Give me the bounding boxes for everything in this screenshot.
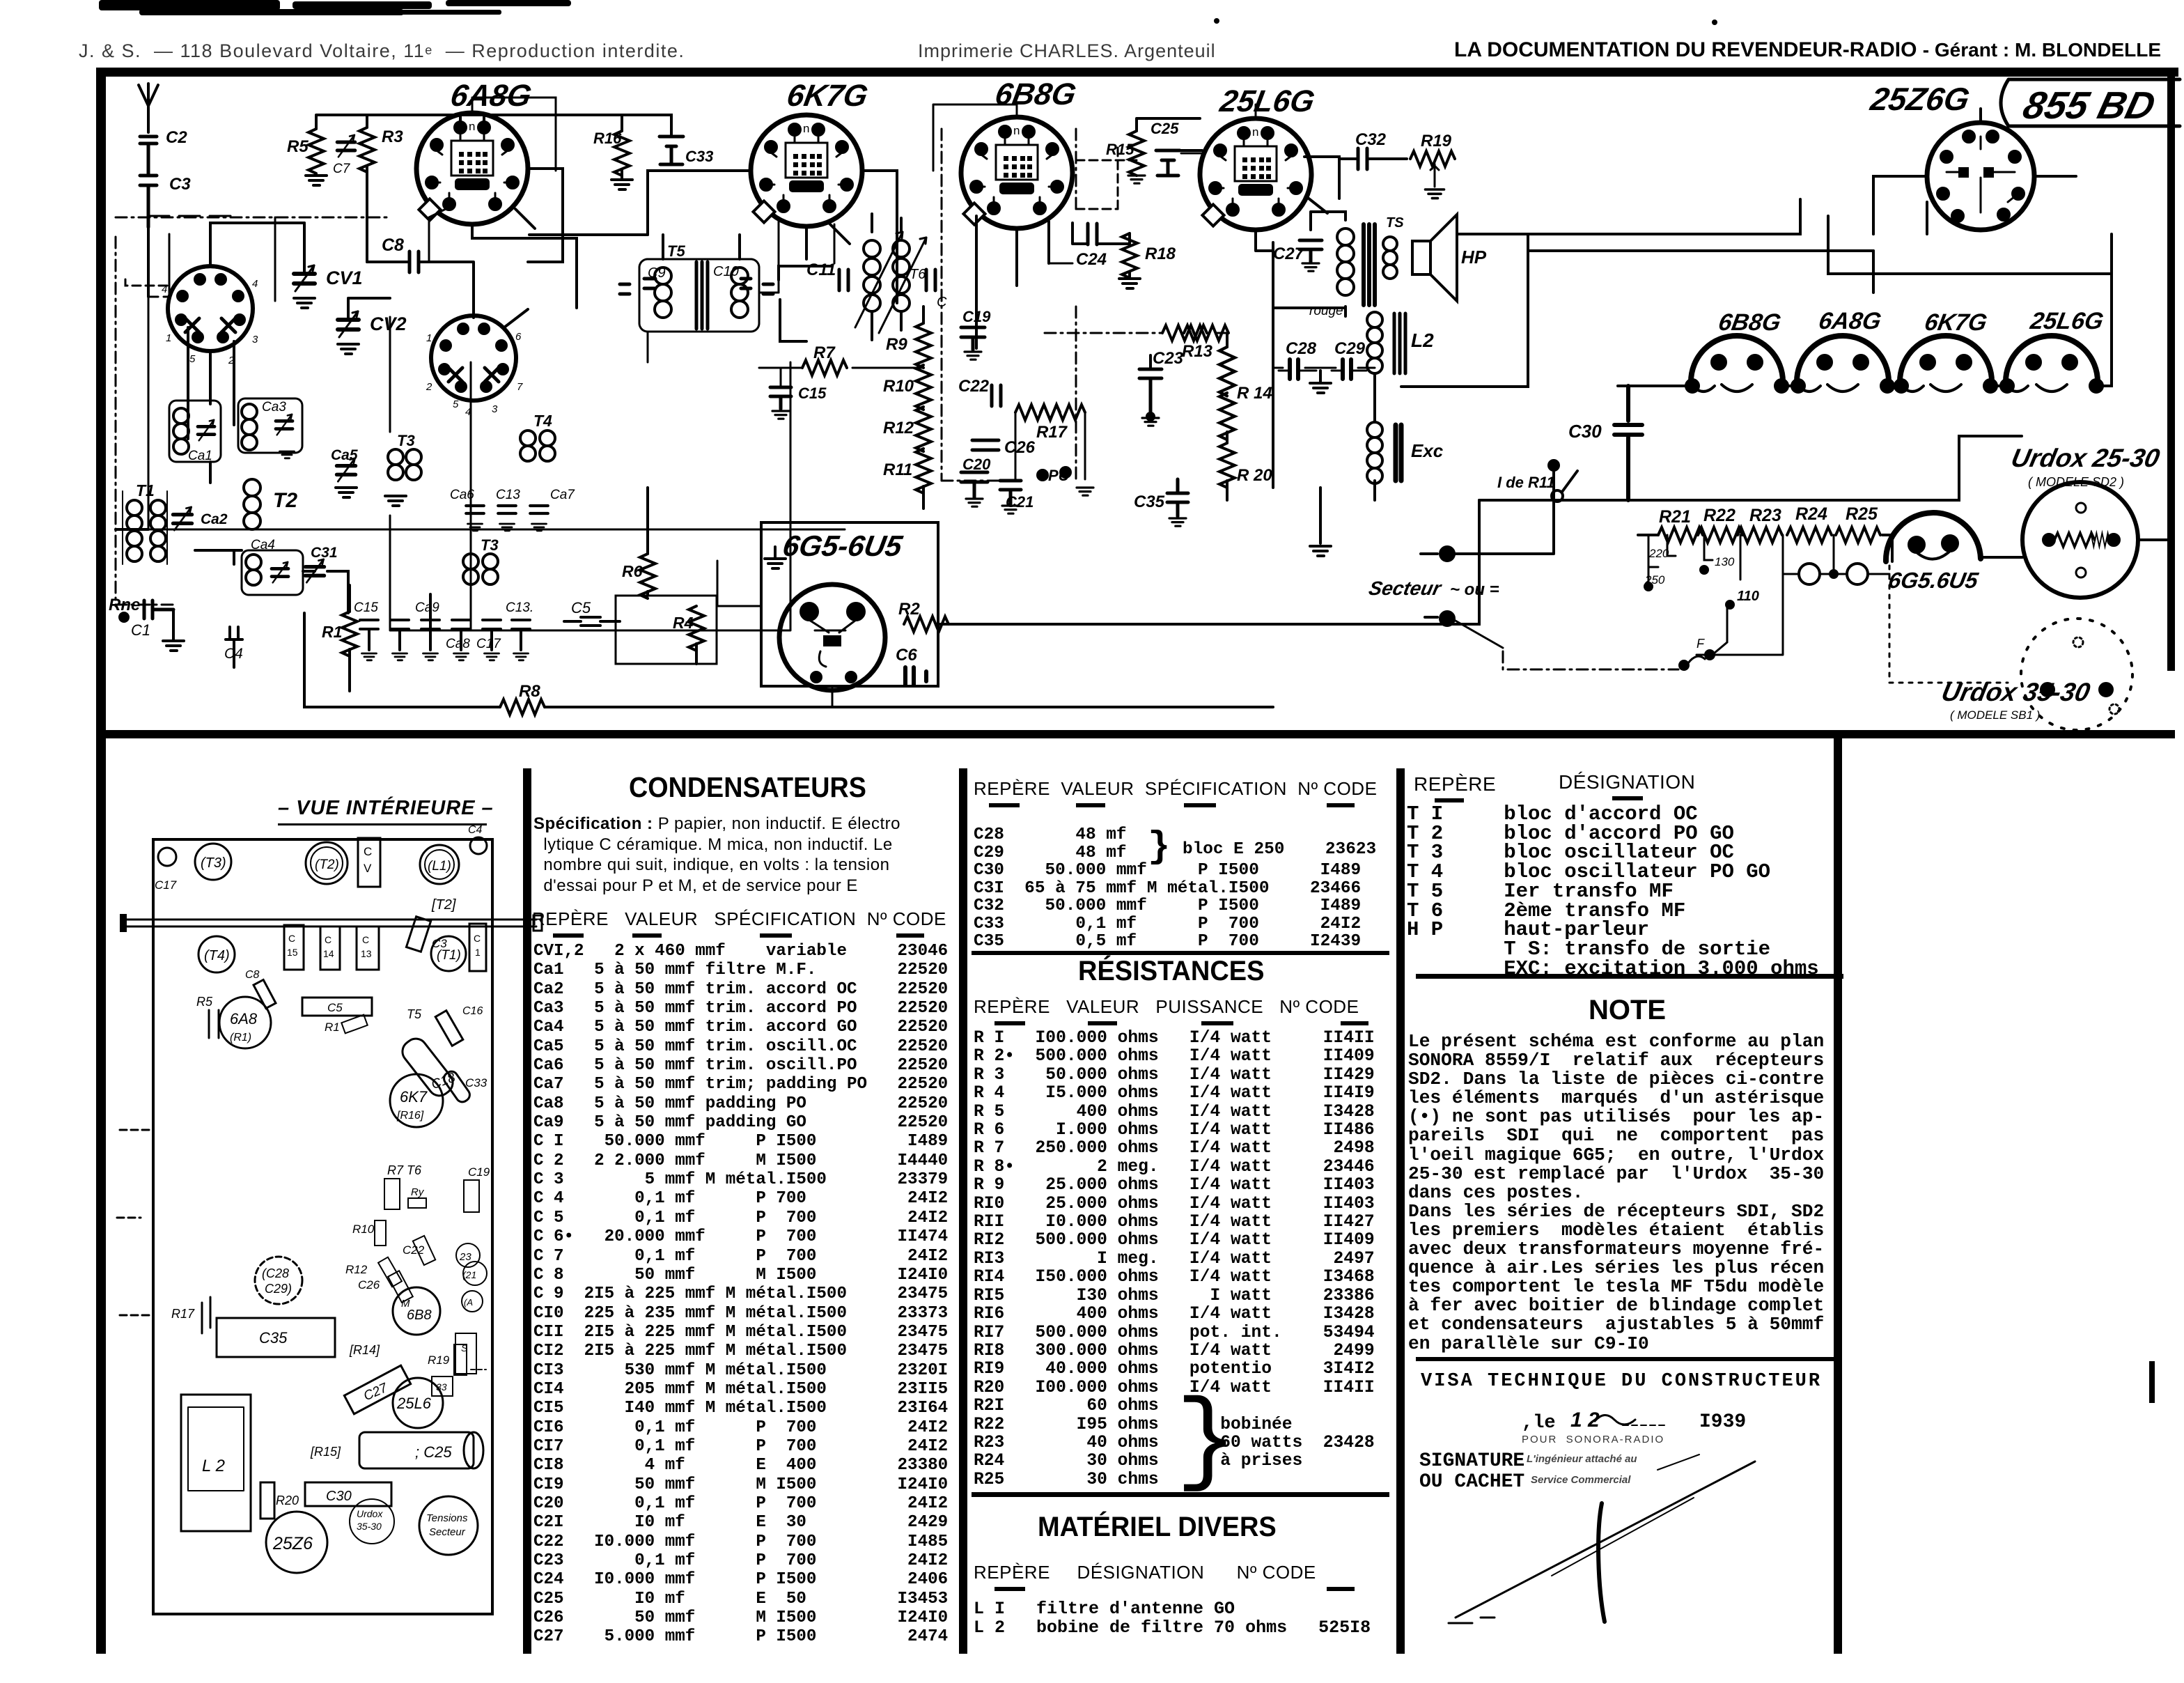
chassis C18 [398, 1034, 458, 1101]
svg-text:C6: C6 [896, 646, 917, 665]
column 3 top table C28-C35 [974, 778, 1377, 800]
capacitor C20 [961, 456, 991, 506]
svg-text:R5: R5 [287, 137, 309, 156]
svg-text:[R14]: [R14] [349, 1343, 380, 1357]
transformer T3 lower [463, 536, 499, 584]
svg-text:130: 130 [1715, 555, 1735, 568]
wire V1 bottom nets [188, 327, 234, 439]
wire 25L6G top link [1181, 104, 1256, 153]
svg-text:13: 13 [361, 948, 372, 959]
chassis C3 [406, 917, 447, 952]
svg-text:T5: T5 [407, 1007, 422, 1021]
svg-text:CV2: CV2 [370, 313, 407, 334]
VISA block [1421, 1371, 1822, 1392]
coil-trimmer block Ca1 [169, 401, 221, 463]
wire R7 net [759, 368, 923, 386]
svg-text:6G5-6U5: 6G5-6U5 [780, 529, 905, 562]
svg-text:23: 23 [459, 1251, 471, 1263]
svg-text:C5: C5 [327, 1001, 343, 1014]
wire T5 secondary to 6K7G [648, 293, 779, 362]
chassis CV block [358, 838, 380, 887]
svg-text:C8: C8 [245, 969, 260, 981]
svg-text:Secteur: Secteur [1367, 577, 1444, 599]
capacitor C27 [1273, 240, 1322, 271]
svg-text:R9: R9 [886, 335, 907, 354]
svg-text:R2: R2 [898, 600, 920, 619]
wire dash top right of 6B8G [1076, 208, 1118, 210]
coil-trimmer block Ca4 + C31 [242, 538, 303, 595]
wire 25Z6G left loop [1528, 234, 1873, 251]
svg-text:R10: R10 [883, 377, 914, 396]
svg-text:25L6G: 25L6G [2028, 308, 2106, 334]
trimmer Ca5 [337, 458, 356, 481]
svg-text:25L6G: 25L6G [1217, 84, 1317, 118]
chassis R12 C26 [345, 1257, 413, 1303]
svg-text:R25: R25 [1846, 504, 1878, 524]
chassis R17 [171, 1297, 210, 1333]
svg-text:R1: R1 [322, 623, 342, 641]
resistor R20 [1219, 443, 1235, 488]
wire 25L6G right [1304, 157, 1339, 213]
chassis C33b [432, 1376, 453, 1396]
bottom capacitor row C15 C19 Ca8 C17 C13 [360, 620, 378, 650]
capacitor C21 [1000, 481, 1033, 513]
svg-text:Ca5: Ca5 [331, 447, 358, 463]
chassis 6K7 [390, 1074, 443, 1127]
svg-text:6K7G: 6K7G [784, 79, 870, 113]
transformer T4 [520, 412, 555, 461]
chassis C22 [403, 1236, 435, 1265]
CONDENSATEURS column [629, 771, 866, 804]
middle divider [106, 730, 2175, 738]
svg-text:220: 220 [1648, 547, 1669, 560]
svg-text:R3: R3 [382, 127, 403, 146]
svg-text:6K7G: 6K7G [1923, 309, 1989, 336]
svg-text:2: 2 [426, 381, 432, 393]
svg-text:Ca3: Ca3 [262, 400, 286, 414]
wire to converter [148, 290, 169, 297]
svg-text:C35: C35 [259, 1329, 288, 1347]
svg-text:Ca7: Ca7 [550, 488, 575, 502]
wire under 6G5 box [832, 686, 834, 707]
svg-text:5: 5 [189, 353, 196, 365]
svg-text:Tensions: Tensions [426, 1512, 468, 1524]
svg-text:855 BD: 855 BD [2019, 84, 2160, 127]
ground output stage [1319, 488, 1322, 543]
chassis Tensions Secteur [419, 1496, 478, 1555]
column 4 designation table [1414, 773, 1496, 796]
filament 6B8G [1686, 336, 1788, 392]
capacitor C29 [1332, 339, 1366, 379]
svg-text:3: 3 [492, 403, 498, 415]
chassis C16 [435, 1005, 483, 1046]
svg-text:PU: PU [1048, 467, 1070, 484]
svg-text:L 2: L 2 [202, 1457, 225, 1475]
svg-text:C26: C26 [1004, 438, 1036, 457]
ground 6G5 [774, 547, 777, 557]
taps 220 130 250 [1644, 535, 1735, 590]
wire T5 top [663, 226, 806, 259]
chassis 25L6 [393, 1378, 443, 1428]
svg-text:C17: C17 [476, 637, 501, 651]
field coil Exc [1367, 422, 1444, 483]
chassis T3 [195, 844, 231, 880]
svg-text:R17: R17 [1036, 423, 1068, 442]
resistor R15 [1129, 131, 1144, 176]
svg-text:C3: C3 [169, 175, 191, 194]
svg-text:R12: R12 [883, 419, 914, 437]
heater bus wire [1618, 316, 2112, 386]
wire R2 to right bus [938, 500, 1479, 624]
svg-text:C5: C5 [571, 599, 591, 616]
wire staircase 3 [1873, 202, 1927, 234]
svg-text:C20: C20 [962, 456, 991, 473]
wire 6B8G top link [933, 104, 1017, 171]
chassis R19 [428, 1344, 486, 1375]
resistor R14 [1219, 347, 1235, 396]
dashed shield 6B8G [942, 129, 1076, 481]
wire R23-R24 junction down [1696, 535, 1783, 655]
svg-text:C19: C19 [962, 308, 991, 325]
capacitor C8 [409, 251, 419, 272]
chassis C5 [302, 998, 372, 1016]
svg-text:C32: C32 [1355, 130, 1387, 149]
svg-text:(21: (21 [462, 1269, 476, 1280]
chassis C35 [217, 1318, 335, 1357]
handwritten 855 BD box [2001, 79, 2180, 127]
capacitor C2 [140, 128, 187, 155]
svg-text:14: 14 [323, 948, 334, 959]
svg-text:4: 4 [252, 278, 258, 290]
svg-text:Ca8: Ca8 [446, 637, 470, 651]
trimmer row Ca6 C13 Ca7 [466, 506, 484, 513]
svg-text:R13: R13 [1182, 342, 1213, 361]
wire C8 net [367, 262, 474, 318]
svg-text:[R16]: [R16] [396, 1110, 424, 1122]
filter choke L2 [1367, 312, 1434, 373]
dashed link to Urdox 35-30 [1889, 566, 2047, 696]
svg-text:R5: R5 [196, 995, 213, 1009]
svg-text:HP: HP [1461, 247, 1487, 267]
transformer T5 (1st MF) [620, 242, 773, 332]
svg-text:C7: C7 [333, 162, 351, 176]
svg-text:Urdox: Urdox [357, 1508, 383, 1519]
wire block outline mid cluster [471, 362, 790, 630]
svg-text:C24: C24 [1076, 250, 1107, 269]
resistor R22 [1698, 527, 1742, 543]
chassis C33 [442, 1069, 487, 1105]
capacitor C26 [972, 438, 1036, 457]
svg-text:TS: TS [1386, 215, 1404, 231]
wire staircase 1 [1527, 199, 1800, 234]
capacitor C28 [1279, 339, 1317, 379]
chassis 6B8 [393, 1287, 440, 1335]
wire V2 right slash [504, 309, 528, 327]
svg-text:C19: C19 [468, 1165, 490, 1179]
wires osc block [116, 462, 348, 613]
svg-text:Ca9: Ca9 [415, 600, 439, 615]
wire C24 line across [1049, 263, 1072, 265]
tube V6 magic eye [779, 584, 885, 690]
wire long vertical left of 665 [429, 594, 432, 639]
chassis C17 [155, 848, 177, 892]
svg-text:Urdox 35-30: Urdox 35-30 [1939, 677, 2093, 706]
svg-text:25L6: 25L6 [396, 1395, 432, 1412]
wire 6K7G right [829, 171, 897, 303]
svg-text:R6: R6 [622, 562, 643, 580]
svg-text:1: 1 [426, 332, 432, 344]
wire C28 C29 link [1273, 367, 1375, 369]
capacitor C30 [1568, 386, 1642, 500]
svg-text:R20: R20 [276, 1494, 299, 1507]
svg-text:; C25: ; C25 [415, 1443, 452, 1461]
wire 6A8G right [515, 169, 563, 262]
wire 25L6G left dash [1076, 160, 1137, 162]
svg-text:T4: T4 [533, 412, 552, 430]
chassis C25 [359, 1432, 483, 1468]
svg-text:Secteur: Secteur [429, 1526, 466, 1538]
svg-text:C33: C33 [465, 1076, 487, 1089]
svg-text:R18: R18 [1145, 245, 1176, 263]
resistor R18 [1122, 233, 1137, 278]
output transformer TS [1337, 215, 1404, 305]
header dot [1712, 20, 1717, 25]
capacitor C12 [926, 270, 935, 290]
svg-text:R21: R21 [1659, 507, 1691, 527]
capacitor C19 [961, 308, 991, 359]
trimmer C7 [337, 135, 355, 157]
svg-text:C1: C1 [131, 621, 150, 639]
svg-text:C27: C27 [1273, 245, 1305, 263]
wire left edge of 6G5 box to bus [717, 561, 761, 606]
svg-text:R19: R19 [428, 1354, 450, 1367]
wire L2-Exc [1373, 373, 1376, 500]
wire secteur minus [1454, 502, 1554, 554]
wire 6A8G top bus [316, 115, 582, 129]
svg-text:C: C [288, 933, 295, 944]
svg-text:C9: C9 [648, 265, 666, 281]
antenna [139, 84, 158, 132]
svg-text:R11: R11 [883, 460, 912, 479]
switch I de R11 [1497, 460, 1577, 502]
resistor R6 [640, 554, 655, 598]
svg-text:C15: C15 [798, 385, 827, 402]
svg-text:(R1): (R1) [230, 1032, 251, 1044]
wire arc to urdox [1892, 535, 2172, 561]
wire R13 to R14 [1215, 332, 1227, 334]
dashed shield 25L6G area [1117, 146, 1119, 209]
svg-text:C: C [325, 934, 331, 945]
potentiometer R19 [1410, 132, 1455, 199]
chassis 25Z6 [266, 1512, 327, 1573]
chassis C19 [464, 1165, 490, 1212]
svg-text:~ ou =: ~ ou = [1450, 580, 1499, 599]
svg-text:C: C [364, 845, 372, 858]
Urdox 35-30 (dashed alt) [2021, 619, 2132, 730]
svg-text:1: 1 [166, 332, 171, 344]
MATERIEL DIVERS title [1038, 1512, 1277, 1543]
svg-text:C16: C16 [462, 1005, 483, 1017]
wire heater arcs joints [1692, 386, 2028, 391]
svg-text:C17: C17 [155, 878, 177, 892]
resistor R3 [359, 127, 375, 172]
wire secteur plus dash [1454, 620, 1503, 648]
svg-text:C13: C13 [496, 488, 520, 502]
transformer T2 [244, 479, 260, 529]
svg-text:(T4): (T4) [204, 948, 230, 963]
capacitor C6 [896, 646, 926, 685]
wire HP to bus [1401, 234, 1528, 387]
capacitor C32 [1358, 148, 1367, 169]
chassis C8 [245, 969, 276, 1009]
resistor R21 [1658, 527, 1703, 543]
svg-text:V: V [364, 862, 372, 875]
svg-text:T6: T6 [910, 267, 926, 282]
svg-text:6B8: 6B8 [407, 1308, 432, 1323]
trimmer CV2 [338, 311, 359, 337]
svg-text:15: 15 [287, 947, 298, 958]
svg-text:C: C [362, 934, 369, 945]
wire V1 left dash [125, 279, 167, 286]
svg-text:6K7: 6K7 [400, 1088, 428, 1106]
potentiometer R17 [1015, 405, 1085, 479]
svg-text:110: 110 [1737, 589, 1759, 604]
svg-text:R7: R7 [813, 343, 836, 362]
svg-text:C23: C23 [1153, 349, 1184, 368]
svg-text:C11: C11 [806, 261, 836, 279]
svg-text:Ca1: Ca1 [188, 449, 212, 463]
svg-text:R7 T6: R7 T6 [387, 1163, 422, 1177]
filament 6K7G [1895, 336, 1997, 392]
svg-text:[T2]: [T2] [431, 897, 456, 913]
svg-text:25Z6G: 25Z6G [1867, 81, 1972, 117]
column bar D [1834, 738, 1842, 1654]
svg-text:C21: C21 [1006, 493, 1033, 511]
scanner smudge top [99, 0, 280, 10]
tube U5 25Z6G [1927, 123, 2034, 230]
column bar A [523, 768, 531, 1654]
box around C5 R4 [616, 596, 717, 664]
chassis L2 [181, 1395, 251, 1531]
svg-text:R16: R16 [593, 130, 622, 147]
svg-text:C22: C22 [958, 377, 990, 396]
VUE INTERIEURE title [278, 797, 494, 820]
svg-text:6A8: 6A8 [230, 1010, 258, 1027]
svg-text:C8: C8 [382, 235, 404, 255]
trimmer C31 [306, 559, 325, 582]
ground CV1 [294, 298, 315, 308]
svg-text:R12: R12 [345, 1263, 368, 1276]
wire 6A8G to grid line [472, 224, 577, 308]
NOTE title [1589, 995, 1666, 1026]
chassis S rect [455, 1333, 476, 1374]
ground T3 [385, 496, 406, 506]
chassis C30 [305, 1482, 391, 1506]
svg-text:S: S [461, 1342, 468, 1354]
capacitor C22 [992, 385, 1001, 406]
resistor R16 [614, 131, 630, 176]
svg-text:R8: R8 [519, 682, 540, 701]
svg-text:R17: R17 [171, 1307, 195, 1321]
wire 6A8G top link [472, 98, 556, 171]
capacitor C23 [1139, 349, 1184, 426]
trimmer Ca2 [173, 507, 192, 530]
svg-text:(L1): (L1) [428, 859, 451, 874]
pickup Rne C1 [109, 596, 184, 651]
tube U2 6K7G [751, 115, 862, 226]
ground CV2 [338, 344, 359, 354]
svg-text:Ry: Ry [411, 1186, 425, 1198]
wire 6K7G bottom drop [779, 222, 834, 293]
svg-text:C31: C31 [311, 545, 338, 561]
svg-text:R15: R15 [1106, 141, 1134, 158]
speaker HP [1412, 215, 1487, 301]
capacitor C35 [1134, 479, 1188, 526]
svg-text:R 20: R 20 [1237, 466, 1272, 485]
svg-text:rouge: rouge [1309, 304, 1343, 318]
header line right [1454, 38, 2161, 62]
svg-text:R 14: R 14 [1237, 384, 1272, 403]
svg-text:(T1): (T1) [437, 948, 461, 963]
svg-text:6A8G: 6A8G [1817, 308, 1883, 334]
svg-text:R23: R23 [1749, 506, 1781, 525]
svg-text:3: 3 [252, 334, 258, 346]
chassis C13 C14 C13 rects [284, 925, 379, 970]
chassis CA circle [462, 1291, 483, 1312]
svg-text:[R15]: [R15] [310, 1445, 341, 1459]
wire to switch [1479, 469, 1574, 500]
ground C15 [772, 411, 789, 419]
svg-text:C22: C22 [403, 1243, 425, 1257]
svg-text:6B8G: 6B8G [992, 77, 1078, 111]
capacitor C24 [1088, 224, 1097, 245]
wire antenna down [147, 227, 150, 297]
svg-text:C13.: C13. [506, 600, 533, 615]
svg-text:1: 1 [475, 947, 481, 958]
wire staircase 2 [1828, 216, 2112, 274]
svg-text:R4: R4 [673, 614, 694, 632]
trimmer CV1 [294, 265, 315, 291]
MF transformer T6 with cores [855, 232, 926, 333]
resistor R24 [1787, 527, 1832, 543]
chassis R7 T6 [384, 1163, 426, 1209]
secteur terminals [1367, 547, 1499, 626]
wire B+ line [1574, 436, 2022, 500]
ground C28 C29 [1319, 371, 1322, 382]
column bar C [1396, 768, 1405, 1654]
wire 6A8G diamond drop [429, 209, 446, 262]
wire 25Z6G nets [1873, 109, 2076, 234]
RESISTANCES title [1078, 956, 1264, 987]
svg-text:T1: T1 [136, 481, 155, 499]
capacitor C5 [564, 599, 620, 626]
wire right riser to staircase [1873, 251, 2112, 316]
chassis R10 [352, 1220, 386, 1246]
svg-text:Urdox 25-30: Urdox 25-30 [2008, 443, 2162, 472]
tap 110 [1726, 535, 1759, 608]
PU terminals [1038, 467, 1093, 495]
chassis R20 [260, 1482, 299, 1519]
svg-text:CV1: CV1 [326, 267, 363, 288]
chassis C27 [344, 1365, 410, 1414]
svg-text:25Z6: 25Z6 [272, 1534, 313, 1553]
wire 6K7G left [529, 171, 751, 235]
svg-text:C29: C29 [1334, 339, 1366, 358]
svg-text:C10: C10 [713, 264, 739, 279]
chassis R1 [325, 1015, 368, 1034]
svg-text:C33: C33 [685, 148, 713, 165]
magic eye box 6G5-6U5 [761, 522, 938, 686]
